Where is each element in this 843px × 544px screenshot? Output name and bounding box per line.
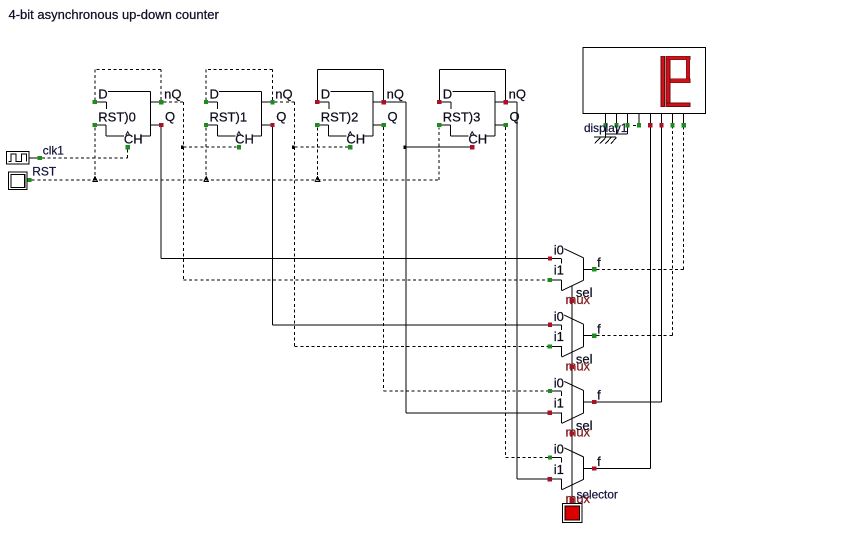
svg-text:sel: sel — [576, 352, 593, 367]
display1 pin 1 — [603, 114, 607, 128]
sel pin mux1 — [570, 299, 574, 303]
digit 1 (segments) — [661, 56, 665, 106]
wire nQ2 feedback to D2 — [318, 69, 384, 100]
svg-text:f: f — [597, 321, 601, 336]
svg-text:D: D — [210, 87, 219, 102]
svg-text:i1: i1 — [554, 395, 564, 410]
wire Q1 to mux2 i0 — [272, 127, 547, 325]
svg-text:4-bit asynchronous up-down cou: 4-bit asynchronous up-down counter — [9, 7, 220, 22]
D flip-flop DFF1 — [204, 87, 293, 150]
svg-text:f: f — [597, 255, 601, 270]
clock generator clk1 — [7, 143, 64, 164]
svg-text:Q: Q — [388, 109, 398, 124]
wire nQ3 feedback to D3 — [440, 69, 506, 100]
wire nQ0 feedback to D0 — [95, 69, 161, 100]
display1 pin 2 — [614, 114, 618, 128]
wire RST riser to DFF1 — [205, 127, 207, 180]
sel pin mux3 — [570, 431, 574, 435]
svg-text:display1: display1 — [584, 121, 627, 135]
svg-text:f: f — [597, 454, 601, 469]
ground symbol — [594, 137, 617, 144]
svg-text:f: f — [597, 388, 601, 403]
svg-text:nQ: nQ — [387, 87, 404, 102]
wire nQ2 branch to CH3 — [403, 145, 470, 149]
wire Q0 to mux1 i0 — [161, 127, 548, 258]
multiplexer mux3 — [548, 375, 601, 439]
svg-text:sel: sel — [576, 285, 593, 300]
svg-text:RST)2: RST)2 — [321, 110, 359, 125]
svg-text:D: D — [98, 87, 107, 102]
wire Q3 to mux4 i0 — [506, 127, 548, 457]
sel pin mux2 — [570, 365, 574, 369]
wire nQ0 branch to CH1 — [181, 145, 237, 149]
digit 2 (segments) — [666, 56, 690, 106]
svg-text:nQ: nQ — [164, 87, 181, 102]
display1 pin 6 — [659, 114, 663, 128]
7-segment display display1 — [583, 48, 706, 114]
svg-text:Q: Q — [276, 109, 286, 124]
wire RST riser to DFF2 — [317, 127, 319, 180]
wire mux4 f to display pin — [597, 128, 651, 469]
sel pin mux4 — [570, 498, 574, 502]
wire sel chain from selector to all mux sel inputs — [571, 286, 573, 502]
svg-text:RST)0: RST)0 — [98, 110, 136, 125]
svg-text:Q: Q — [165, 109, 175, 124]
wire RST bus — [32, 127, 440, 180]
wire mux3 f to display pin — [597, 128, 662, 403]
multiplexer mux1 — [548, 243, 601, 307]
wire nQ1 feedback to D1 — [206, 69, 272, 100]
wire nQ3 to mux4 i1 — [508, 102, 548, 479]
D flip-flop DFF0 — [93, 87, 182, 150]
svg-text:i0: i0 — [554, 243, 564, 258]
D flip-flop DFF3 — [437, 87, 526, 150]
toggle switch RST (off) — [9, 165, 57, 190]
svg-text:i1: i1 — [554, 263, 564, 278]
junction on RST bus at DFF1 — [204, 177, 209, 182]
display1 pin 8 — [682, 114, 686, 128]
multiplexer mux2 — [548, 309, 601, 373]
svg-text:i0: i0 — [554, 442, 564, 457]
display1 pin 3 — [626, 114, 630, 128]
wire Q2 to mux3 i0 — [384, 127, 548, 391]
svg-text:RST: RST — [32, 165, 57, 179]
junction on RST bus at DFF2 — [315, 177, 320, 182]
wire nQ2 to mux3 i1 — [386, 102, 548, 413]
wire nQ0 to mux1 i1 — [163, 102, 547, 280]
wire mux2 f to display pin — [597, 128, 673, 336]
svg-text:i1: i1 — [554, 462, 564, 477]
svg-text:sel: sel — [576, 418, 593, 433]
svg-text:i0: i0 — [554, 375, 564, 390]
svg-text:RST)1: RST)1 — [210, 110, 248, 125]
svg-text:Q: Q — [510, 109, 520, 124]
svg-text:nQ: nQ — [509, 87, 526, 102]
D flip-flop DFF2 — [315, 87, 404, 150]
wire display pins 1-3 to ground — [605, 127, 627, 136]
wire RST riser to DFF0 — [94, 127, 96, 180]
wire mux1 f to display pin — [597, 128, 684, 270]
svg-text:D: D — [443, 87, 452, 102]
svg-text:nQ: nQ — [275, 87, 292, 102]
stub wire at display pin 4 — [633, 124, 637, 126]
toggle switch selector (on) — [563, 488, 618, 523]
svg-text:i0: i0 — [554, 309, 564, 324]
wire clk1 -> CH0 — [42, 149, 128, 158]
junction on RST bus at DFF0 — [93, 177, 98, 182]
svg-text:D: D — [321, 87, 330, 102]
svg-text:selector: selector — [577, 488, 618, 502]
display1 pin 4 — [637, 114, 641, 128]
svg-text:RST)3: RST)3 — [443, 110, 481, 125]
svg-text:clk1: clk1 — [43, 143, 64, 157]
wire nQ1 branch to CH2 — [292, 145, 348, 149]
display1 pin 5 — [648, 114, 652, 128]
wire nQ1 to mux2 i1 — [275, 102, 548, 346]
display1 pin 7 — [671, 114, 675, 128]
multiplexer mux4 — [548, 442, 601, 506]
svg-text:i1: i1 — [554, 329, 564, 344]
